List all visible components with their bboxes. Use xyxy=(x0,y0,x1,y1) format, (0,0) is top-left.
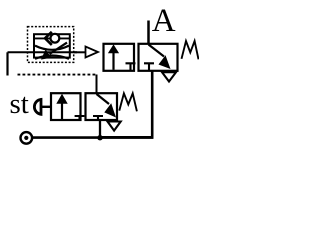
valve V1 spring xyxy=(182,41,199,59)
valve V2 blocked port (right box) xyxy=(93,116,103,120)
wire pilot loop: left drop xyxy=(6,52,8,75)
flow control Z1 adjustment arrow xyxy=(50,43,68,54)
valve V2 spring xyxy=(119,93,137,111)
wire V1 supply riser xyxy=(100,71,153,137)
svg-text:A: A xyxy=(152,3,176,39)
flow control Z1 check valve ball xyxy=(51,34,60,43)
valve V2 push button actuator xyxy=(34,99,41,114)
svg-text:st: st xyxy=(10,88,29,120)
wire pilot stub into V1 xyxy=(74,51,86,53)
flow control Z1 flow line xyxy=(28,51,78,53)
source P compressed air xyxy=(21,132,33,144)
valve V1 flow arrow (left box, pass) xyxy=(112,52,114,70)
valve V1 pilot triangle xyxy=(86,47,99,58)
valve V2 right position box xyxy=(86,93,118,120)
valve V1 right position box xyxy=(139,44,178,71)
wire port A riser xyxy=(147,21,150,44)
valve V1 left position box xyxy=(104,44,135,71)
valve V2 exhaust path arrow (right box, diagonal) xyxy=(97,94,110,104)
flow control Z1 throttle arcs xyxy=(35,46,69,59)
wire supply main run xyxy=(33,136,154,139)
valve V1 blocked port (left box) xyxy=(126,63,136,70)
flow control Z1 dashed enclosure xyxy=(28,27,74,63)
wire pilot loop: riser to V2 output xyxy=(96,75,98,94)
valve V2 flow arrow (left box) xyxy=(61,102,63,120)
valve V2 exhaust silencer triangle xyxy=(108,122,121,131)
junction supply node xyxy=(97,135,102,140)
flow control Z1 check valve seat xyxy=(45,32,52,45)
valve V1 blocked port (right box) xyxy=(144,63,154,70)
flow control Z1 inner body box xyxy=(34,34,70,57)
flow control Z1 check valve bypass line xyxy=(34,37,70,39)
valve V1 exhaust path arrow (right box, diagonal) xyxy=(149,45,165,57)
valve V2 left position box xyxy=(51,93,81,120)
wire pilot loop: left stub xyxy=(8,51,28,53)
wire V2 supply drop xyxy=(99,120,101,138)
wire pilot loop: bottom run xyxy=(18,74,97,76)
valve V2 blocked port (left box) xyxy=(75,116,85,120)
valve V1 exhaust silencer triangle xyxy=(162,72,176,81)
